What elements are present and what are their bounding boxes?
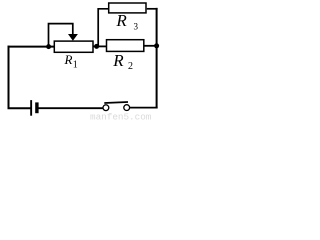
battery B1 long plate bbox=[30, 100, 32, 116]
svg-text:1: 1 bbox=[73, 60, 78, 71]
wire R1 to R2 bbox=[93, 45, 107, 47]
wire bottom right segment (switch to right) bbox=[130, 107, 158, 109]
junction node C (right) bbox=[154, 43, 159, 48]
wire bottom left segment bbox=[8, 107, 31, 109]
switch S1 blade bbox=[104, 102, 128, 103]
switch S1 left terminal bbox=[103, 105, 109, 111]
switch S1 right terminal bbox=[124, 105, 130, 111]
svg-text:manfen5.com: manfen5.com bbox=[90, 111, 152, 121]
svg-text:3: 3 bbox=[134, 21, 139, 31]
wire top left horizontal bbox=[8, 46, 56, 48]
wire right vertical bbox=[156, 8, 158, 109]
wire R3 right bbox=[147, 8, 158, 10]
resistor R2 body bbox=[107, 40, 144, 52]
svg-text:R: R bbox=[112, 51, 124, 70]
resistor R3 body bbox=[109, 3, 146, 13]
wire bottom middle segment (battery to switch) bbox=[38, 107, 102, 109]
svg-text:R: R bbox=[64, 52, 73, 67]
potentiometer R1 wiper wire bbox=[49, 24, 73, 47]
wire R2 right bbox=[144, 45, 158, 47]
junction node A (left of R1) bbox=[46, 44, 51, 49]
potentiometer R1 body bbox=[54, 41, 93, 52]
potentiometer R1 wiper arrow bbox=[68, 34, 78, 41]
svg-text:2: 2 bbox=[128, 61, 133, 72]
wire branch up to R3 bbox=[98, 9, 109, 47]
svg-text:R: R bbox=[115, 11, 127, 30]
junction node B (between R1 and R2) bbox=[94, 44, 99, 49]
wire left vertical bbox=[8, 46, 10, 109]
battery B1 short thick plate bbox=[35, 102, 38, 113]
